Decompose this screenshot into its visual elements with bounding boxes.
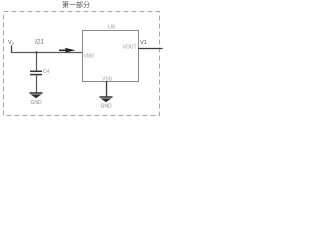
svg-text:V1: V1 bbox=[140, 40, 147, 46]
wire input horizontal to U8 VIN bbox=[11, 52, 82, 54]
svg-text:VOUT: VOUT bbox=[123, 45, 137, 51]
svg-text:VSS: VSS bbox=[102, 77, 113, 83]
wire input stub vertical bbox=[11, 46, 13, 54]
op-amp / regulator U8 box bbox=[83, 31, 139, 82]
svg-text:GND: GND bbox=[30, 100, 42, 106]
svg-text:V2: V2 bbox=[8, 40, 15, 46]
ground (center, below U8) bbox=[100, 97, 113, 102]
wire output from U8 VOUT bbox=[138, 48, 163, 50]
wire U8 VSS stem to ground bbox=[106, 81, 108, 97]
wire C4 upper stem bbox=[36, 52, 38, 71]
svg-text:GND: GND bbox=[100, 104, 112, 110]
wire C4 lower stem bbox=[36, 75, 38, 93]
svg-text:第一部分: 第一部分 bbox=[62, 0, 90, 9]
junction node at C4 tap bbox=[35, 51, 37, 53]
capacitor C4 bbox=[30, 71, 42, 74]
current direction arrow bbox=[59, 48, 76, 53]
ground (left, below C4) bbox=[30, 93, 43, 98]
dashed boundary frame bbox=[4, 12, 160, 116]
svg-text:C4: C4 bbox=[43, 69, 50, 75]
svg-text:I21: I21 bbox=[35, 39, 44, 46]
svg-text:VI80: VI80 bbox=[84, 54, 95, 60]
svg-text:U8: U8 bbox=[108, 25, 115, 31]
